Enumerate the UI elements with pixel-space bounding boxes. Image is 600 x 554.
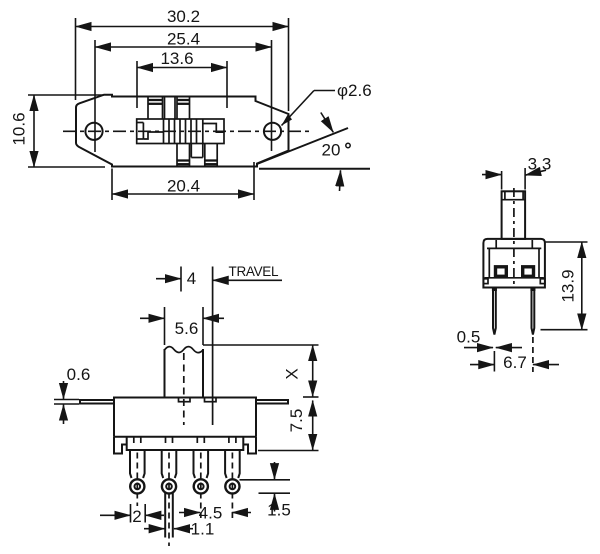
svg-text:30.2: 30.2 [167,7,200,26]
stem right edge [202,349,204,398]
mechanism: middle hatch [164,119,203,144]
pin2 centerline [532,337,534,372]
dimension 0.5 [457,328,522,348]
mounting flange [80,400,288,404]
mounting hole right [264,123,281,140]
lower tab hatch [178,161,217,165]
svg-text:20.4: 20.4 [167,177,200,196]
svg-text:2: 2 [132,507,141,526]
svg-text:6.7: 6.7 [503,353,527,372]
svg-text:4: 4 [187,269,196,288]
stem cap line [502,199,525,201]
center line (dashed) [63,130,312,132]
svg-text:φ2.6: φ2.6 [337,81,372,100]
plate outline [76,95,289,167]
terminal pins [130,450,240,478]
svg-text:7.5: 7.5 [287,409,306,433]
dimension 5.6 [140,307,224,345]
pin ticks at base [134,437,236,443]
20 degree angle line [257,128,348,164]
side body outline [483,239,545,288]
travel reference line [212,267,214,426]
stem corner ticks [504,191,506,199]
stem base notches [179,398,191,402]
upper tab hatch [149,100,190,104]
mechanism: main band [137,119,224,144]
dimension 1.5 [240,462,291,520]
stem left edge [164,349,166,398]
dimension 3.3 [482,155,551,190]
svg-text:25.4: 25.4 [167,30,200,49]
dimension 0.6 [54,365,90,424]
svg-text:TRAVEL: TRAVEL [229,264,280,279]
svg-text:20: 20 [322,141,341,160]
dimension 4 [156,267,196,292]
dimension 7.5 [258,401,319,451]
stem break wave [165,347,204,353]
mechanism: upper tabs [148,97,190,120]
svg-text:13.6: 13.6 [160,49,193,68]
dimension 20.4 [112,162,254,200]
bottom corner notches [483,279,544,284]
pin eyelets [130,479,239,493]
svg-text:0.5: 0.5 [457,328,481,347]
dimension 1.1 [144,520,214,539]
phi 2.6 leader [282,81,372,126]
svg-text:3.3: 3.3 [528,155,552,174]
dimension X [203,345,319,397]
svg-text:13.9: 13.9 [558,269,577,302]
dimension 6.7 [470,351,559,372]
svg-text:1.5: 1.5 [267,501,291,520]
svg-text:X: X [283,368,302,379]
side pins [493,288,534,335]
svg-text:0.6: 0.6 [67,365,91,384]
reference line arrow [340,170,341,191]
long pin 2 [165,493,173,538]
body inner lines [484,240,544,278]
dimension 10.6 [10,95,106,167]
body outline [114,398,256,454]
side centerline [513,188,515,286]
mechanism: lower tabs [177,144,217,166]
dimension 25.4 [95,30,272,153]
dimension 2 [100,504,164,526]
stem centerline dashed [183,353,185,425]
dimension 13.9 [541,242,588,330]
svg-text:1.1: 1.1 [191,520,215,539]
side stem [502,191,525,239]
mounting hole left [85,123,102,140]
pin root marks [493,288,534,292]
pin centerlines [137,453,232,547]
TRAVEL label [213,264,282,280]
bottom reference line [259,168,370,170]
svg-text:5.6: 5.6 [175,319,199,338]
dimension 4.5 [179,503,251,522]
contacts [496,267,507,277]
dimension 30.2 [76,7,289,111]
svg-text:10.6: 10.6 [10,112,29,145]
dimension 13.6 [137,49,227,108]
angle arrow [321,113,334,133]
